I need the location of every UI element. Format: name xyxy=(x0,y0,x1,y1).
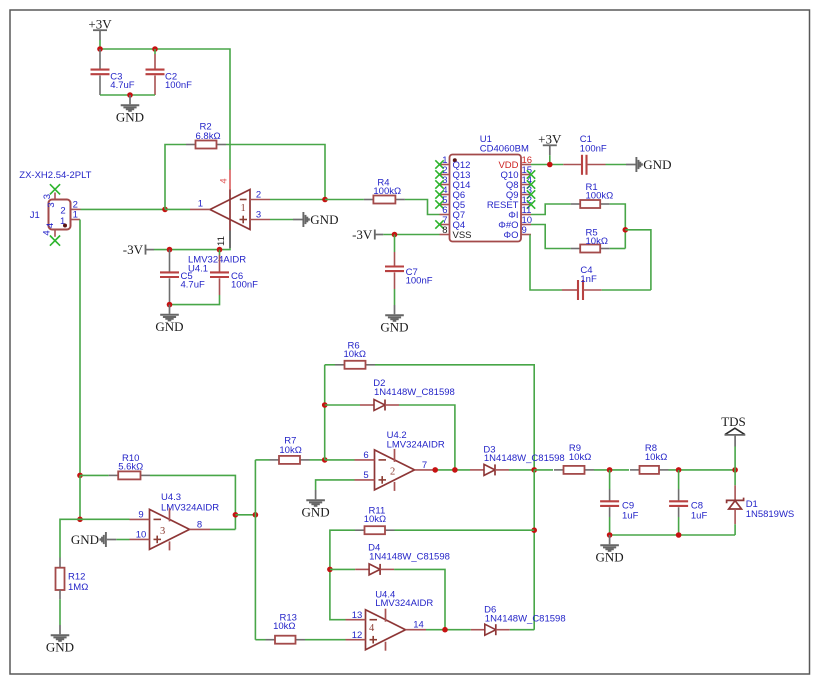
wire R11 left down to D4 anode and pin13 xyxy=(330,530,355,620)
wire TDS to node xyxy=(734,447,736,470)
capacitor C4 1nF (horizontal) xyxy=(562,289,578,291)
wire -3V to U1 VSS pin8 xyxy=(383,234,439,236)
U1 pin 4 (Q6) xyxy=(440,194,450,196)
junction C5 top xyxy=(167,247,173,253)
junction D4 anode xyxy=(327,567,333,573)
resistor R13 10k xyxy=(266,639,276,641)
U1 pin 13 (Q9) xyxy=(521,194,531,196)
svg-text:GND: GND xyxy=(302,505,330,520)
svg-text:10kΩ: 10kΩ xyxy=(645,452,667,463)
junction D4/output xyxy=(442,627,448,633)
wire long vertical from J1 pin1 / R10 node down xyxy=(77,473,83,479)
junction C2 top xyxy=(152,46,158,52)
J1 pin 4 stub + no-connect xyxy=(54,230,56,237)
svg-text:9: 9 xyxy=(138,510,143,521)
junction R6/D3 xyxy=(531,467,537,473)
svg-text:4.7uF: 4.7uF xyxy=(181,279,205,290)
U4.1 pin3 stub xyxy=(250,219,270,221)
junction input node xyxy=(162,207,168,213)
wire node to C4 right xyxy=(625,230,651,290)
wire -3V rail to U4.1 pin11 xyxy=(154,248,230,249)
capacitor C6 xyxy=(219,250,221,255)
junction R11 tap xyxy=(531,527,537,533)
svg-text:100kΩ: 100kΩ xyxy=(586,191,614,202)
svg-text:5.6kΩ: 5.6kΩ xyxy=(118,462,143,473)
wire U4.1 output to input node xyxy=(165,208,190,210)
wire R5 right xyxy=(610,248,626,250)
resistor R5 10k xyxy=(571,248,581,250)
wire U4.4 output xyxy=(426,629,471,631)
junction C9 bottom xyxy=(607,532,613,538)
junction output jog left xyxy=(233,512,239,518)
junction +3V/C3 xyxy=(97,46,103,52)
wire C1 to GND xyxy=(606,164,627,166)
junction U4.3 pin9 node xyxy=(77,517,83,523)
svg-text:+3V: +3V xyxy=(88,16,112,31)
wire C5/C6 bottom rail xyxy=(170,295,220,305)
svg-text:2: 2 xyxy=(256,189,261,200)
wire R8 right to TDS/D1 xyxy=(669,469,736,471)
svg-text:12: 12 xyxy=(352,630,363,641)
J1 origin dot xyxy=(63,224,67,228)
resistor R9 10k xyxy=(554,469,564,471)
svg-text:7: 7 xyxy=(422,460,427,471)
resistor R12 1M (vertical) xyxy=(59,558,61,568)
wire U4.2 output row xyxy=(435,469,470,471)
svg-text:1N4148W_C81598: 1N4148W_C81598 xyxy=(484,453,565,464)
svg-text:9: 9 xyxy=(522,225,527,236)
wire R7 right to pin6 node xyxy=(310,459,325,461)
wire R12 bottom to GND xyxy=(59,599,61,625)
capacitor C2 xyxy=(154,49,156,54)
diode D1 1N5819WS (schottky, vertical) xyxy=(734,470,736,485)
ground GND (below C7) xyxy=(394,305,396,314)
svg-text:TDS: TDS xyxy=(721,414,746,429)
resistor R6 10k xyxy=(335,364,345,366)
wire J1 pin1 down to bottom section xyxy=(79,220,81,476)
junction C9 tap xyxy=(607,467,613,473)
wire U4.1 pin3 to GND xyxy=(270,219,293,221)
wire jog horizontal xyxy=(235,514,255,516)
junction pin6 node xyxy=(322,457,328,463)
wire pin6 node to U4.2 pin6 xyxy=(325,459,355,461)
svg-text:2: 2 xyxy=(390,466,395,477)
junction D2 anode xyxy=(322,402,328,408)
wire U1 pin9 to C4 left xyxy=(530,235,562,291)
svg-text:GND: GND xyxy=(71,532,99,547)
svg-text:J1: J1 xyxy=(30,210,40,221)
wire bottom rail C9/C8/D1 xyxy=(610,534,736,536)
ground GND (U4.1 pin3, sideways) xyxy=(293,219,303,221)
resistor R1 100k xyxy=(571,203,581,205)
svg-text:3: 3 xyxy=(256,209,261,220)
svg-text:13: 13 xyxy=(352,610,363,621)
svg-text:100nF: 100nF xyxy=(231,279,258,290)
wire R11 right xyxy=(395,529,535,531)
wire R4 to U1 pin6 xyxy=(405,200,440,215)
U1 pin 10 (Φ#O) xyxy=(521,224,531,226)
svg-text:LMV324AIDR: LMV324AIDR xyxy=(387,440,445,451)
svg-text:3: 3 xyxy=(160,526,165,537)
svg-text:LMV324AIDR: LMV324AIDR xyxy=(375,598,433,609)
U1 pin 14 (Q8) xyxy=(521,184,531,186)
svg-text:ZX-XH2.54-2PLT: ZX-XH2.54-2PLT xyxy=(19,170,91,181)
svg-text:4: 4 xyxy=(369,623,375,634)
J1 pin 1 stub xyxy=(71,219,81,221)
wire D3 node to R9 xyxy=(534,469,553,471)
svg-text:10kΩ: 10kΩ xyxy=(279,445,301,456)
U4.1 pin2 stub xyxy=(250,199,270,201)
U1 pin 8 (VSS) xyxy=(440,234,450,236)
wire R7 left xyxy=(255,459,269,461)
svg-text:11: 11 xyxy=(216,236,227,246)
svg-text:10kΩ: 10kΩ xyxy=(273,621,295,632)
resistor R10 5.6k xyxy=(109,474,119,476)
svg-text:CD4060BM: CD4060BM xyxy=(480,144,529,155)
wire input node up to R2 xyxy=(165,145,186,210)
resistor R4 100k xyxy=(364,199,374,201)
svg-text:10kΩ: 10kΩ xyxy=(344,349,366,360)
wire node to R4 xyxy=(325,199,364,201)
junction GND tap xyxy=(127,92,133,98)
U1 pin 12 (RESET) xyxy=(521,204,531,206)
svg-text:1: 1 xyxy=(73,209,78,220)
wire +3V rail to C3/C2 and down to U4.1 pin 4 xyxy=(99,40,101,49)
junction C5 bottom / GND xyxy=(167,302,173,308)
svg-text:6: 6 xyxy=(363,450,368,461)
wire R10 right down to output jog xyxy=(150,475,235,529)
U1 pin 16 (VDD) xyxy=(521,164,531,166)
junction TDS/D1 node xyxy=(732,467,738,473)
capacitor C3 xyxy=(99,49,101,70)
svg-text:ΦO: ΦO xyxy=(504,230,519,241)
svg-text:GND: GND xyxy=(46,640,74,655)
wire R1 right xyxy=(610,204,626,249)
svg-text:-3V: -3V xyxy=(352,227,373,242)
U1 pin 7 (Q4) xyxy=(440,224,450,226)
wire U4.1 pin2 to node xyxy=(270,199,325,201)
U1 pin 3 (Q14) xyxy=(440,184,450,186)
U1 pin 5 (Q5) xyxy=(440,204,450,206)
svg-text:4: 4 xyxy=(42,230,53,235)
junction C8 bottom xyxy=(676,532,682,538)
svg-text:1: 1 xyxy=(241,203,246,214)
junction VDD/+3V xyxy=(547,162,553,168)
svg-text:GND: GND xyxy=(596,550,624,565)
wire pin9 xyxy=(80,518,130,520)
U1 pin 6 (Q7) xyxy=(440,214,450,216)
resistor R11 10k xyxy=(355,529,365,531)
resistor R8 10k xyxy=(630,469,640,471)
junction output jog right xyxy=(253,512,259,518)
svg-text:4: 4 xyxy=(45,223,56,228)
ground GND (below R12) xyxy=(59,625,61,634)
wire R2 right to opamp pin2 node xyxy=(226,145,325,200)
wire main vertical R7 to R13 xyxy=(254,460,256,640)
wire right vertical D3 node down to D6 xyxy=(533,470,535,630)
svg-text:2: 2 xyxy=(60,206,65,217)
svg-text:GND: GND xyxy=(155,319,183,334)
junction pin2/R2/R4 node xyxy=(322,197,328,203)
wire C7 bottom xyxy=(394,289,396,305)
junction C6 top xyxy=(217,247,223,253)
svg-text:8: 8 xyxy=(442,225,447,236)
wire D4 cathode down to output row xyxy=(394,569,445,629)
junction R1/R5/C4 node xyxy=(623,227,629,233)
svg-text:6.8kΩ: 6.8kΩ xyxy=(196,131,221,142)
junction C8 tap xyxy=(676,467,682,473)
wire U4.2 pin5 to GND xyxy=(316,480,355,490)
svg-text:100nF: 100nF xyxy=(580,144,607,155)
svg-text:4: 4 xyxy=(219,178,230,183)
svg-text:100nF: 100nF xyxy=(406,276,433,287)
svg-text:-3V: -3V xyxy=(123,242,144,257)
svg-text:10kΩ: 10kΩ xyxy=(364,514,386,525)
capacitor C1 100nF (horizontal) xyxy=(563,164,582,166)
svg-text:GND: GND xyxy=(380,320,408,335)
junction C7 tap xyxy=(392,232,398,238)
svg-text:100kΩ: 100kΩ xyxy=(373,186,401,197)
svg-text:1N5819WS: 1N5819WS xyxy=(746,509,795,520)
resistor R7 10k xyxy=(270,459,280,461)
resistor R2 6.8k xyxy=(186,144,196,146)
wire D6 cathode up right vertical xyxy=(510,629,534,631)
svg-text:1N4148W_C81598: 1N4148W_C81598 xyxy=(485,613,566,624)
svg-text:4.7uF: 4.7uF xyxy=(110,80,134,91)
wire U1 pin10 to R5 xyxy=(531,225,571,249)
svg-text:1uF: 1uF xyxy=(691,510,708,521)
svg-text:1: 1 xyxy=(198,199,203,210)
ground GND (U4.3 pin10, sideways) xyxy=(116,539,129,541)
U4.1 pin1 output stub xyxy=(190,208,210,210)
svg-text:8: 8 xyxy=(197,519,202,530)
svg-text:5: 5 xyxy=(363,470,368,481)
svg-text:100nF: 100nF xyxy=(165,80,192,91)
junction output stub xyxy=(432,467,438,473)
ground GND (below U4.2 pin5) xyxy=(315,490,317,499)
J1 pin 3 stub + no-connect xyxy=(54,193,56,200)
U4.1 inner marks xyxy=(240,199,247,201)
svg-text:+3V: +3V xyxy=(538,132,562,147)
wire C4 right xyxy=(602,289,651,291)
svg-text:GND: GND xyxy=(116,110,144,125)
svg-text:1N4148W_C81598: 1N4148W_C81598 xyxy=(369,551,450,562)
U1 pin 11 (ΦI) xyxy=(521,214,531,216)
svg-text:R12: R12 xyxy=(68,572,85,583)
U1 pin 9 (ΦO) xyxy=(521,234,531,236)
svg-text:10: 10 xyxy=(136,530,147,541)
wire D2 cathode to output xyxy=(399,405,455,470)
wire R13 right to U4.4 pin12 xyxy=(305,639,346,641)
ground GND (output filter) xyxy=(609,535,611,544)
wire C3/C2 bottom rail xyxy=(100,94,155,96)
ground GND (below C3/C2) xyxy=(129,95,131,104)
ground GND (right of C1, sideways) xyxy=(626,164,636,166)
svg-text:1N4148W_C81598: 1N4148W_C81598 xyxy=(374,387,455,398)
svg-text:1MΩ: 1MΩ xyxy=(68,582,88,593)
capacitor C7 xyxy=(394,235,396,253)
junction D2 feedback xyxy=(452,467,458,473)
wire R9 to R8 xyxy=(594,469,629,471)
svg-text:14: 14 xyxy=(413,620,424,631)
svg-text:1nF: 1nF xyxy=(580,274,597,285)
svg-text:3: 3 xyxy=(46,202,57,207)
capacitor C8 1uF xyxy=(678,470,680,489)
wire VDD to C1 xyxy=(531,164,563,166)
wire node to R12 xyxy=(60,519,80,557)
ground GND (below C5) xyxy=(169,305,171,314)
U1 origin dot xyxy=(453,158,457,162)
svg-text:1uF: 1uF xyxy=(622,510,639,521)
wire U4.3 output up to jog xyxy=(210,528,235,530)
wire feedback vertical (R6/D2/pin6) xyxy=(324,365,326,460)
svg-text:VSS: VSS xyxy=(453,230,472,241)
wire R6 right to D3 node xyxy=(375,365,534,470)
svg-text:10kΩ: 10kΩ xyxy=(586,236,608,247)
J1 pin 2 stub xyxy=(71,208,81,210)
capacitor C9 1uF xyxy=(609,470,611,489)
wire R13 left xyxy=(255,639,265,641)
U1 pin 15 (Q10) xyxy=(521,174,531,176)
svg-text:GND: GND xyxy=(643,157,671,172)
U1 pin 1 (Q12) xyxy=(440,164,450,166)
svg-text:10kΩ: 10kΩ xyxy=(569,452,591,463)
capacitor C5 xyxy=(169,250,171,273)
wire J1 pin2 to opamp input node xyxy=(81,208,166,210)
U1 pin 2 (Q13) xyxy=(440,174,450,176)
svg-text:3: 3 xyxy=(42,194,53,199)
wire U1 pin11 to R1 xyxy=(531,204,571,215)
op-amp U4.1 LMV324AIDR (left-pointing) xyxy=(210,190,250,230)
svg-text:GND: GND xyxy=(310,212,338,227)
